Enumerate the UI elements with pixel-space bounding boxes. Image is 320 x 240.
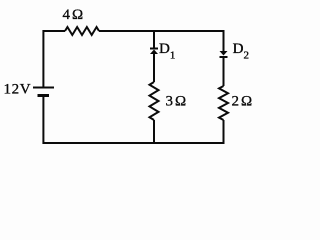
battery short plate <box>38 94 50 97</box>
resistor 2ohm zigzag <box>219 86 228 120</box>
svg-text:3Ω: 3Ω <box>166 94 189 110</box>
svg-text:2Ω: 2Ω <box>232 93 255 109</box>
wire top-left to resistor 4ohm <box>43 30 65 32</box>
svg-text:D1: D1 <box>159 41 175 62</box>
wire left side lower <box>42 97 44 145</box>
diode D1 cathode bar <box>150 48 158 50</box>
wire right branch lower <box>223 120 225 144</box>
battery long plate <box>33 87 54 89</box>
wire top right of resistor <box>99 30 224 32</box>
wire middle branch lower <box>153 120 155 144</box>
svg-text:D2: D2 <box>233 41 249 62</box>
diode D2 triangle (points down) <box>220 51 228 56</box>
wire right side upper <box>223 30 225 52</box>
wire left side upper <box>42 30 44 87</box>
resistor 3ohm zigzag <box>150 82 159 120</box>
svg-text:4Ω: 4Ω <box>63 7 86 23</box>
svg-text:12V: 12V <box>4 82 32 98</box>
resistor 4ohm zigzag <box>65 27 99 35</box>
diode D2 cathode bar <box>220 56 228 58</box>
diode D1 triangle (points up) <box>150 50 158 55</box>
wire right branch mid <box>223 57 225 86</box>
wire middle branch mid <box>153 54 155 83</box>
wire bottom <box>43 142 223 144</box>
wire middle branch upper <box>153 31 155 48</box>
